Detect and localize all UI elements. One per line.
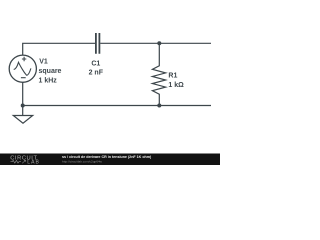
- label V1 square 1 kHz: [39, 58, 62, 84]
- svg-text:http://circuitlab.com/c2qp64w: http://circuitlab.com/c2qp64w: [62, 159, 103, 163]
- voltage source V1: [9, 55, 36, 82]
- wire source bottom to ground node: [22, 82, 24, 105]
- ground: [13, 106, 32, 124]
- svg-text:1 kHz: 1 kHz: [39, 78, 58, 85]
- node A junction dot: [157, 41, 161, 45]
- svg-text:C1: C1: [91, 61, 100, 68]
- svg-text:LAB: LAB: [27, 160, 40, 165]
- wire C1 to node A: [100, 42, 159, 44]
- wire source top to C1: [23, 43, 96, 55]
- svg-text:ss / circuit de derivare CR in: ss / circuit de derivare CR in tensiune …: [62, 155, 152, 159]
- svg-text:2 nF: 2 nF: [89, 69, 104, 76]
- resistor R1: [152, 43, 165, 105]
- ground node junction dot: [21, 104, 25, 108]
- footer bar: [0, 154, 220, 166]
- svg-text:1 kΩ: 1 kΩ: [168, 82, 184, 89]
- wire node A to right end: [159, 42, 211, 44]
- svg-text:R1: R1: [168, 73, 177, 80]
- CircuitLab logo arrow: [22, 160, 25, 163]
- svg-text:square: square: [39, 68, 62, 75]
- label C1 2 nF: [89, 61, 104, 77]
- label R1 1 kOhm: [168, 73, 184, 89]
- CircuitLab logo zigzag: [11, 160, 22, 163]
- capacitor C1: [96, 33, 100, 54]
- wire bottom ground node to right end: [23, 105, 211, 107]
- svg-text:V1: V1: [39, 58, 48, 65]
- node B junction dot: [157, 104, 161, 108]
